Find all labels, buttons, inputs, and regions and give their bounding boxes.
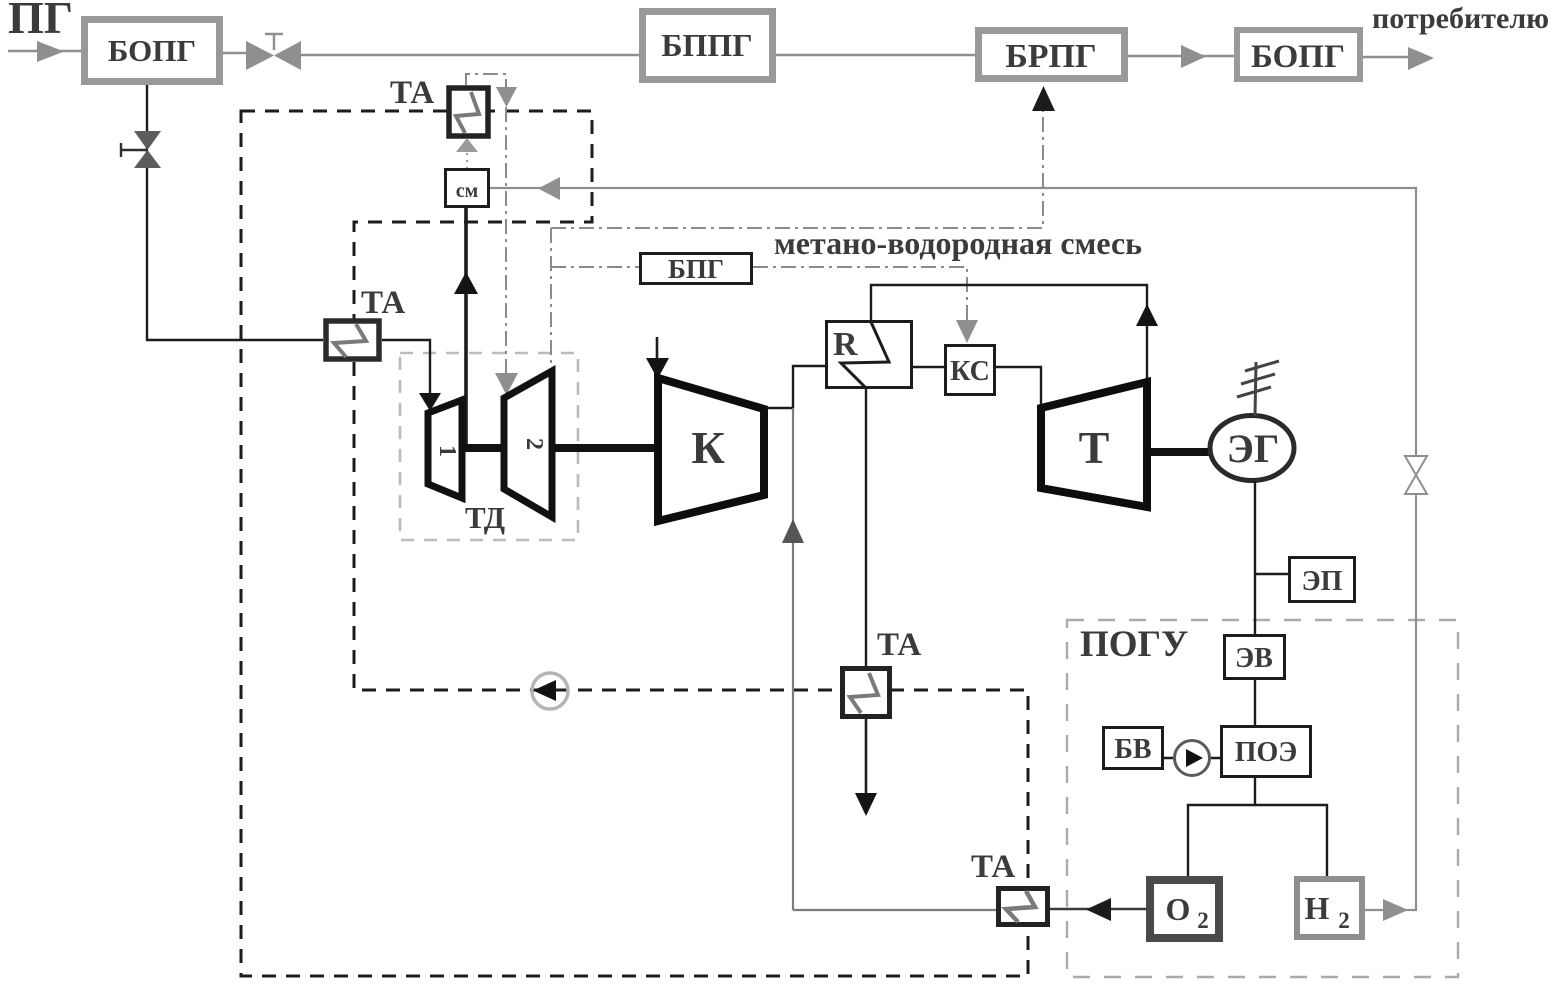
wire: H2 return main (gray, right side) — [490, 188, 1416, 910]
wire: ТА(bottom) to riser — [793, 909, 996, 911]
svg-text:К: К — [691, 422, 724, 473]
svg-text:метано-водородная смесь: метано-водородная смесь — [774, 225, 1142, 261]
svg-text:БВ: БВ — [1114, 734, 1151, 765]
arrow: H2 from box to riser — [1383, 899, 1408, 921]
svg-text:2: 2 — [1338, 908, 1350, 933]
mixer см — [446, 170, 489, 207]
arrow: gas inlet into БОПГ — [37, 41, 64, 62]
wire: ТА to ТД1 inlet — [382, 340, 430, 396]
wire: ПОЭ split to О2 and Н2 — [1188, 776, 1255, 876]
svg-text:БОПГ: БОПГ — [108, 33, 196, 68]
svg-text:БПГ: БПГ — [668, 254, 724, 284]
dashed box ТД (light gray) — [400, 353, 578, 540]
wire: valve to БППГ — [301, 54, 639, 56]
wire: stub to ЭП — [1255, 573, 1288, 575]
turbine Т — [1041, 382, 1147, 507]
turbine ТД stage 2 — [504, 371, 552, 517]
fuel dash-dot: БПГ branch — [551, 266, 639, 268]
dashed boundary: turbo-expander subsystem — [241, 111, 1028, 976]
svg-text:2: 2 — [1197, 908, 1209, 933]
arrow: to consumer — [1408, 47, 1434, 70]
svg-text:БППГ: БППГ — [661, 27, 752, 63]
svg-text:ТА: ТА — [877, 627, 921, 663]
wire: БРПГ to БОПГ (right) — [1128, 55, 1237, 57]
block О2 — [1150, 880, 1219, 938]
wire: ЭВ to ПОЭ — [1254, 679, 1256, 726]
block БПГ — [641, 254, 752, 285]
shaft ТД1-ТД2 — [464, 444, 502, 452]
valve V3 (on H2 riser) — [1405, 456, 1427, 494]
heat exchanger ТА (bottom) — [999, 889, 1048, 925]
arrow: up on exhaust line — [1136, 304, 1158, 326]
wire: R exhaust down to ТА (middle) — [865, 389, 867, 666]
svg-text:потребителю: потребителю — [1372, 2, 1549, 35]
svg-text:ЭВ: ЭВ — [1235, 643, 1273, 674]
svg-text:ПГ: ПГ — [8, 0, 73, 43]
boundary ПОГУ (gray dashed) — [1067, 620, 1458, 977]
svg-text:R: R — [833, 326, 858, 363]
circle-arrow junction on dashed boundary — [532, 673, 568, 709]
block ПОЭ — [1222, 727, 1311, 777]
wire: R to КС — [913, 366, 944, 368]
valve V1 (gray, on gas main) — [246, 34, 301, 70]
wire: БОПГ to valve — [223, 52, 250, 54]
arrow: up on oxygen riser — [782, 519, 804, 543]
fuel dash-dot: down to turbine inlet — [550, 228, 552, 370]
wire: to consumer — [1363, 56, 1412, 58]
wire: КС to Т — [996, 367, 1041, 407]
wire: О2 to ТА (bottom) — [1050, 908, 1146, 910]
svg-text:Т: Т — [1079, 422, 1110, 473]
grid connection symbol — [1237, 361, 1279, 416]
block БППГ — [643, 12, 773, 80]
arrow: down along ТА bypass — [496, 87, 517, 107]
block БОПГ (right) — [1237, 30, 1360, 79]
wire: см down to turbine (with up arrow) — [464, 208, 468, 446]
block БРПГ — [979, 31, 1125, 79]
wire: К output to R — [766, 366, 825, 408]
wire: БОПГ down and to ТА — [147, 85, 323, 340]
generator ЭГ — [1210, 416, 1294, 481]
recuperator R — [827, 322, 912, 389]
svg-text:1: 1 — [434, 445, 460, 457]
wire: БППГ to БРПГ — [776, 54, 975, 56]
arrow: fuel down into КС — [956, 320, 978, 343]
compressor К — [658, 378, 764, 521]
heat exchanger ТА (middle) — [843, 669, 890, 717]
svg-text:ТА: ТА — [390, 75, 434, 111]
arrow: fuel down into ТД2 — [495, 373, 518, 395]
heat exchanger ТА (top) — [449, 88, 488, 136]
combustion chamber КС — [946, 346, 995, 395]
wire: ЭГ down to ЭВ — [1254, 481, 1256, 635]
air inlet arrow into К — [656, 337, 659, 362]
arrow: left into ТА — [1086, 898, 1111, 921]
block Н2 — [1297, 879, 1362, 937]
wire: natural gas inlet — [8, 50, 81, 52]
shaft ТД2-К — [554, 444, 656, 452]
block ЭВ — [1225, 636, 1285, 679]
svg-text:О: О — [1166, 891, 1191, 927]
fuel dash-dot: small loop at top ТА — [466, 74, 506, 390]
arrow: up into ТА — [456, 138, 478, 152]
fuel dash-dot: БРПГ feed line — [551, 108, 1043, 228]
pump (БВ to ПОЭ) — [1164, 741, 1220, 776]
block ЭП — [1290, 558, 1355, 602]
valve V2 (dark, on БОПГ drop line) — [121, 131, 161, 168]
svg-text:ТА: ТА — [971, 849, 1015, 885]
fuel dash-dot: БПГ to КС — [753, 267, 967, 322]
svg-text:БОПГ: БОПГ — [1251, 39, 1345, 75]
svg-text:ЭП: ЭП — [1302, 566, 1343, 597]
block БОПГ (left) — [85, 20, 220, 82]
svg-text:ПОЭ: ПОЭ — [1235, 737, 1298, 768]
svg-text:ПОГУ: ПОГУ — [1080, 624, 1188, 665]
wire: oxygen riser (gray) — [792, 408, 794, 910]
heat exchanger ТА (left) — [326, 321, 379, 359]
arrow: down into ТД1 — [419, 393, 441, 411]
svg-text:ТА: ТА — [361, 285, 405, 321]
arrow: up into БРПГ — [1032, 86, 1055, 111]
arrow: into mixer см — [538, 177, 560, 200]
svg-text:БРПГ: БРПГ — [1005, 38, 1096, 75]
svg-text:ТД: ТД — [465, 500, 505, 535]
arrow: up toward см — [454, 272, 478, 294]
svg-text:см: см — [456, 180, 479, 202]
arrow: between БРПГ and БОПГ — [1181, 45, 1206, 68]
shaft Т-ЭГ — [1150, 448, 1214, 456]
svg-text:Н: Н — [1305, 890, 1330, 926]
wire: Т exhaust up and to R — [871, 285, 1147, 380]
turbine ТД stage 1 — [428, 400, 462, 498]
svg-text:ЭГ: ЭГ — [1227, 426, 1280, 471]
dotted link ТА-см — [466, 139, 468, 168]
block БВ — [1104, 728, 1163, 769]
svg-text:КС: КС — [950, 356, 990, 387]
svg-text:2: 2 — [521, 438, 547, 450]
exhaust outlet arrow — [865, 719, 868, 796]
